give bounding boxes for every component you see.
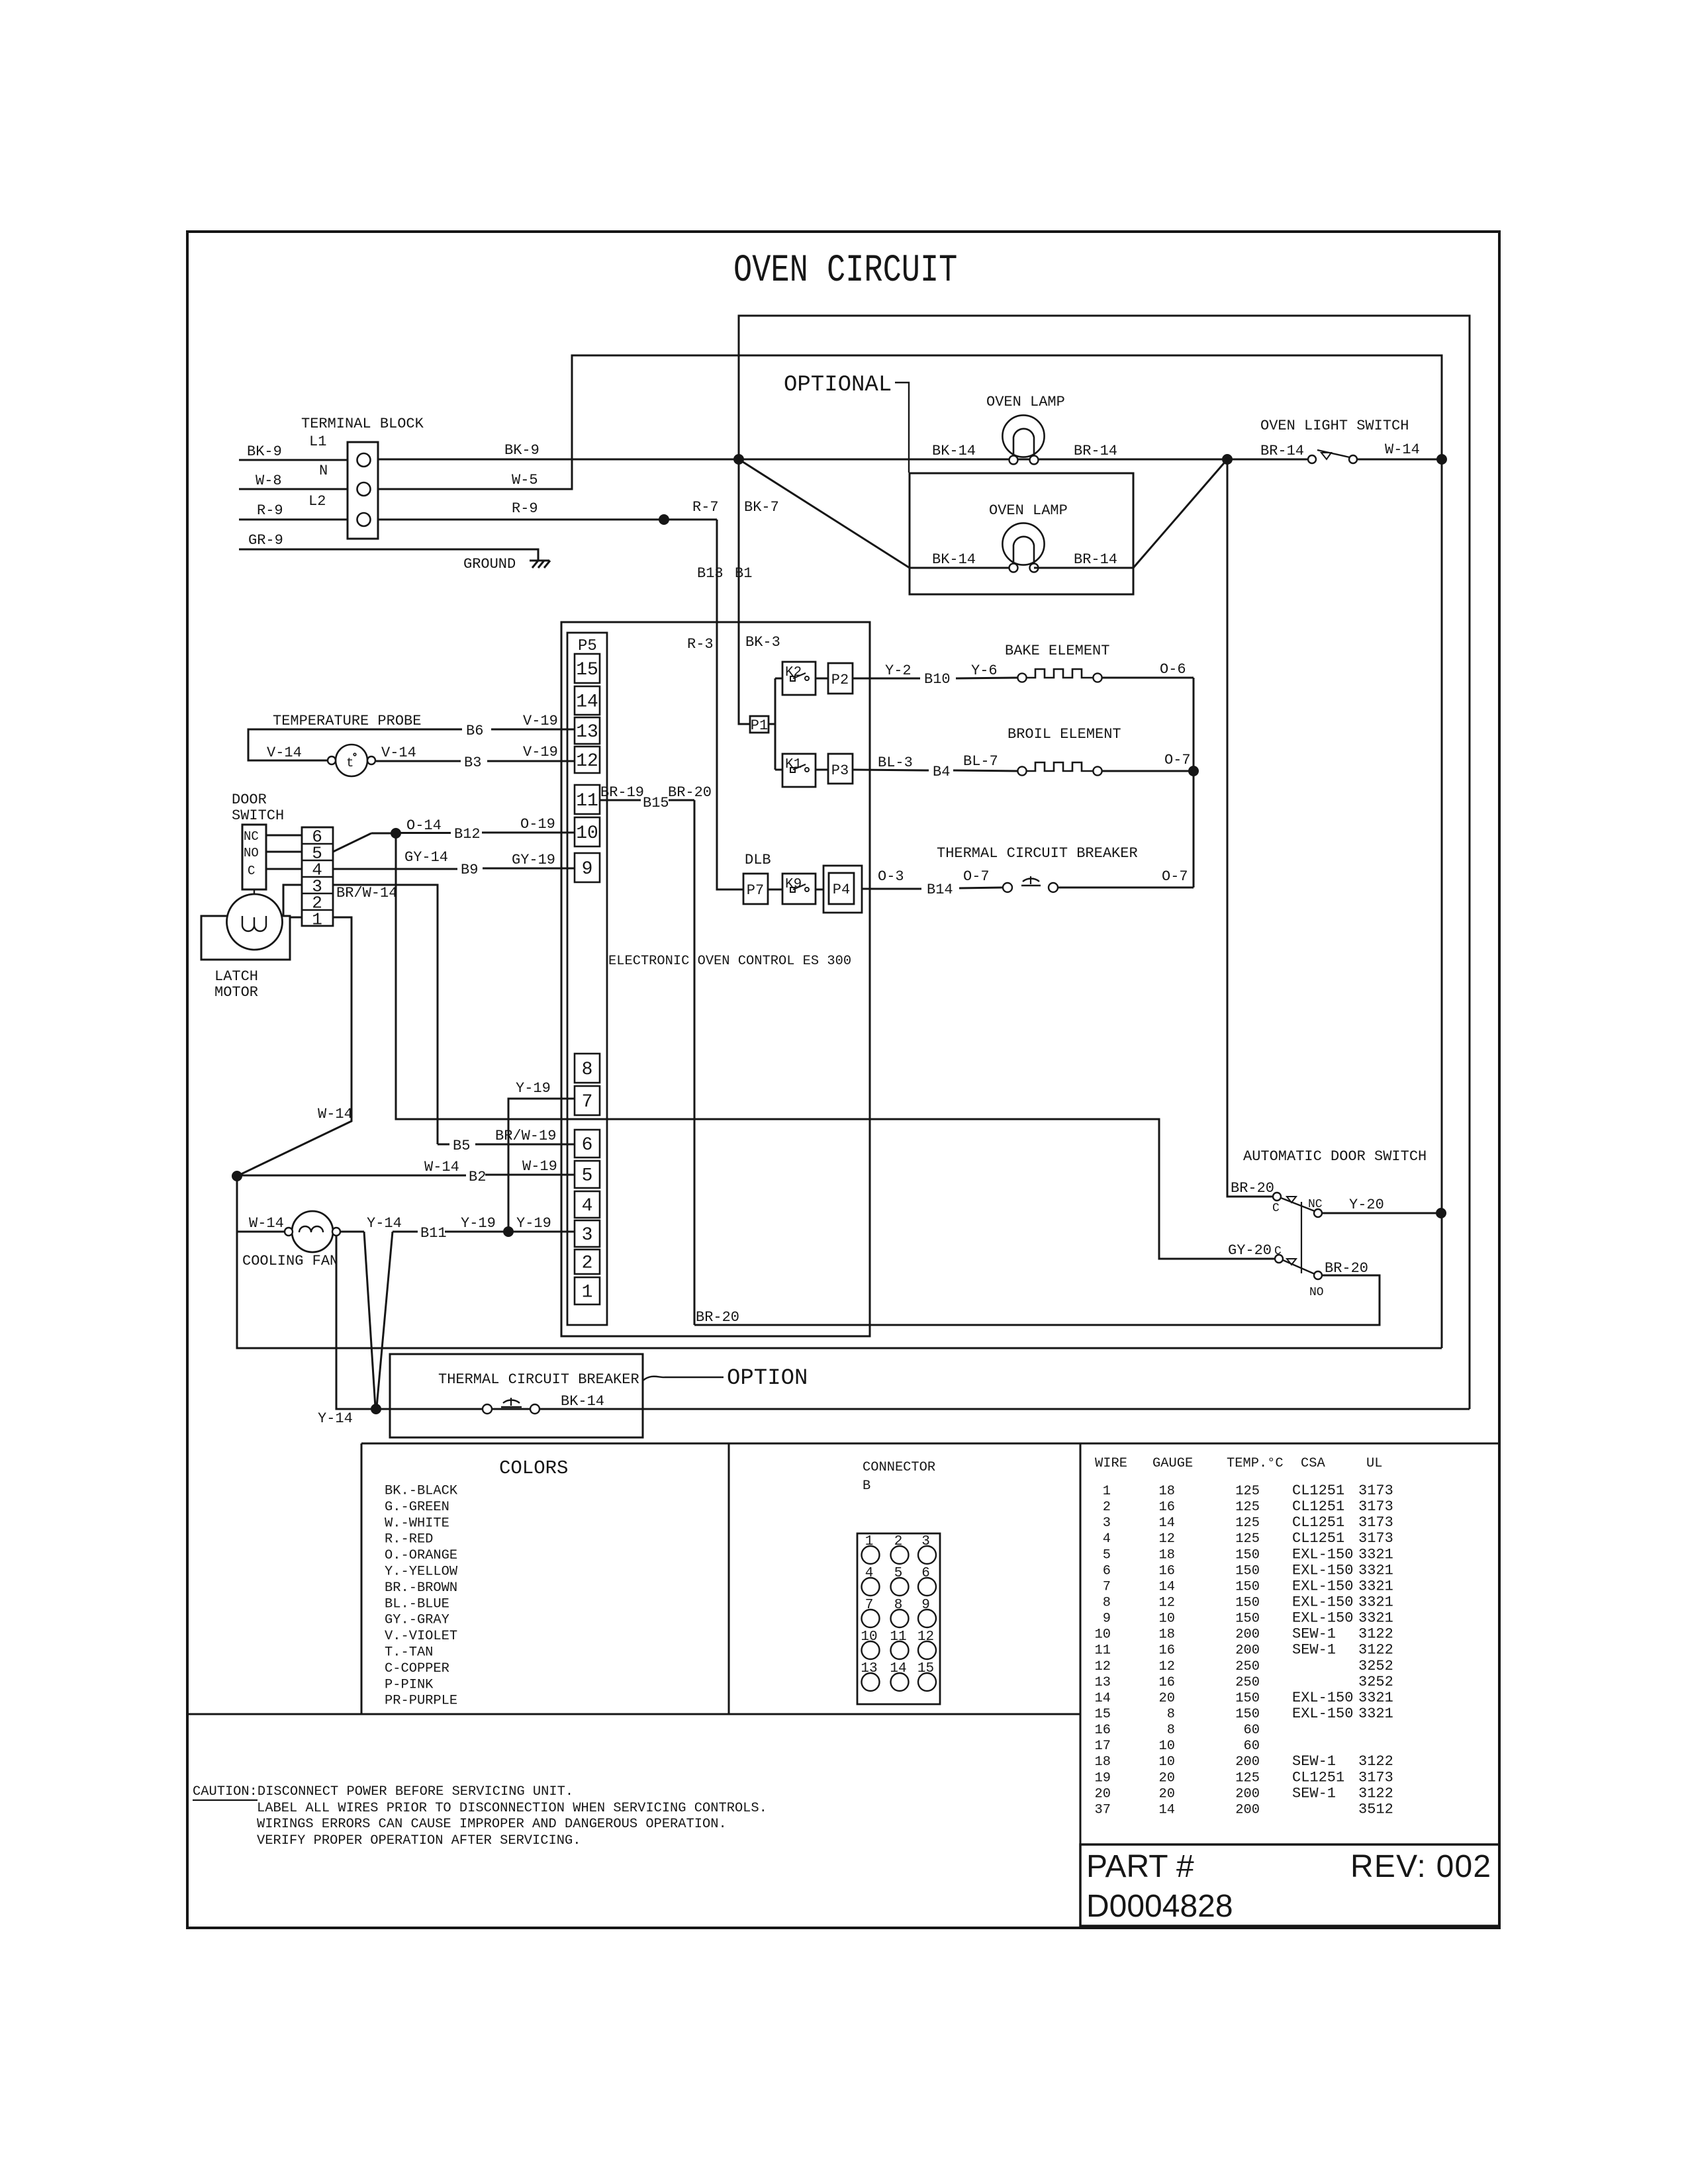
wire pin1 to W-14 node [237,917,353,1176]
wire W-8 N feed [239,473,348,489]
svg-text:1: 1 [865,1534,874,1549]
svg-text:W-14: W-14 [424,1159,459,1175]
wire table header [1095,1456,1382,1471]
svg-text:NO: NO [244,846,259,860]
svg-text:Y-19: Y-19 [461,1215,496,1232]
wire Y-19 pin7 [508,1080,575,1232]
wire K9-P4 [816,889,823,891]
wire W-14 B2 W-19 pin5 [237,1158,575,1185]
svg-text:4: 4 [1103,1531,1111,1547]
border frame [187,232,1499,1928]
svg-text:16: 16 [1159,1500,1175,1515]
svg-text:125: 125 [1235,1770,1260,1786]
pin P5-15 [575,654,600,683]
svg-text:2: 2 [894,1534,903,1549]
svg-text:BL.-BLUE: BL.-BLUE [385,1596,449,1612]
svg-text:BR-14: BR-14 [1074,443,1117,459]
oven light switch S1 [1260,418,1409,463]
svg-text:SEW-1: SEW-1 [1292,1753,1336,1770]
svg-text:THERMAL CIRCUIT BREAKER: THERMAL CIRCUIT BREAKER [937,845,1138,862]
pin P5-11 [575,785,600,814]
svg-text:OVEN CIRCUIT: OVEN CIRCUIT [733,248,957,292]
svg-text:10: 10 [1095,1627,1111,1643]
svg-text:DOOR: DOOR [232,792,267,808]
svg-text:7: 7 [1103,1579,1111,1594]
svg-text:150: 150 [1235,1612,1260,1627]
wire B1 BK-7 drop [735,459,780,724]
svg-text:150: 150 [1235,1707,1260,1722]
wire GY-20 feed run [396,833,1275,1259]
svg-text:O-14: O-14 [406,817,442,834]
svg-text:MOTOR: MOTOR [214,984,258,1001]
label bake element [1005,643,1109,659]
svg-text:125: 125 [1235,1516,1260,1531]
svg-text:R.-RED: R.-RED [385,1532,433,1547]
svg-text:O.-ORANGE: O.-ORANGE [385,1548,457,1563]
svg-text:BL-7: BL-7 [963,753,998,770]
wire BR-14 to switch [1227,443,1308,459]
svg-text:COOLING FAN: COOLING FAN [242,1253,338,1269]
svg-text:AUTOMATIC DOOR SWITCH: AUTOMATIC DOOR SWITCH [1243,1148,1427,1165]
driver P3 [828,754,853,784]
pin P5-7 [575,1086,600,1115]
wire B5 BR/W-19 pin6 [438,1128,575,1154]
pin P5-12 [575,747,600,773]
svg-text:9: 9 [1103,1612,1111,1627]
svg-text:TERMINAL BLOCK: TERMINAL BLOCK [301,416,424,432]
svg-text:2: 2 [582,1253,593,1274]
wire Y-20 [1322,1197,1441,1213]
wire BR-14 drop [1227,459,1274,1197]
door switch [232,792,284,889]
node H junction O-7 [1189,766,1199,776]
svg-text:10: 10 [861,1629,877,1645]
wire NC [266,835,302,837]
svg-text:SEW-1: SEW-1 [1292,1785,1336,1801]
svg-text:BR/W-19: BR/W-19 [495,1128,556,1144]
svg-text:BK-14: BK-14 [932,551,976,568]
svg-text:B14: B14 [927,882,953,898]
node F junction W-14 [232,1171,242,1181]
svg-text:BR-20: BR-20 [668,784,712,801]
wire BL-3 B4 BL-7 [853,753,1017,780]
svg-text:14: 14 [1159,1802,1175,1817]
svg-text:OVEN LAMP: OVEN LAMP [989,502,1068,519]
svg-text:CL1251: CL1251 [1292,1530,1344,1547]
svg-text:W.-WHITE: W.-WHITE [385,1516,449,1531]
svg-text:3512: 3512 [1358,1801,1393,1817]
tables top rule [361,1443,1499,1714]
svg-text:CAUTION:DISCONNECT POWER BEFOR: CAUTION:DISCONNECT POWER BEFORE SERVICIN… [193,1784,573,1799]
svg-text:NC: NC [244,829,259,844]
label thermal circuit breaker [937,845,1138,862]
svg-text:P2: P2 [831,672,849,688]
oven lamp 1 [986,394,1065,465]
svg-text:UL: UL [1366,1456,1382,1471]
svg-text:D0004828: D0004828 [1086,1889,1233,1924]
svg-text:13: 13 [861,1661,877,1676]
wire O-3 B14 O-7 [862,868,1003,898]
wire Y-2 B10 Y-6 [853,662,1017,688]
terminal L2 [357,513,371,526]
svg-text:3252: 3252 [1358,1658,1393,1674]
label COLORS [499,1457,568,1479]
svg-text:B4: B4 [933,764,950,780]
svg-text:GAUGE: GAUGE [1152,1456,1193,1471]
svg-text:EXL-150: EXL-150 [1292,1706,1353,1722]
wire table rules [1080,1443,1082,1844]
svg-text:3122: 3122 [1358,1642,1393,1659]
title OVEN CIRCUIT [733,248,957,292]
svg-text:B10: B10 [924,671,951,688]
wire P7-K9 [768,889,782,891]
label OPTIONAL [784,373,909,473]
auto door switch upper pole [1272,1193,1323,1273]
svg-text:Y-14: Y-14 [367,1215,402,1232]
svg-text:W-19: W-19 [522,1158,557,1175]
svg-text:O-6: O-6 [1160,661,1186,678]
svg-text:8: 8 [582,1060,593,1080]
svg-text:V.-VIOLET: V.-VIOLET [385,1629,457,1644]
svg-text:V-19: V-19 [523,744,558,760]
svg-text:BK-14: BK-14 [561,1393,604,1410]
svg-text:16: 16 [1095,1723,1111,1738]
wire R-9 to B13 [378,500,717,520]
wire optional lamp return [1133,459,1227,568]
svg-text:6: 6 [921,1566,930,1581]
svg-text:Y-2: Y-2 [885,662,912,679]
label PART # [1086,1849,1194,1884]
svg-text:3122: 3122 [1358,1785,1393,1801]
svg-text:EXL-150: EXL-150 [1292,1610,1353,1627]
svg-text:B12: B12 [454,826,481,842]
wire O-7 breaker out [1058,868,1194,887]
svg-text:O-7: O-7 [1164,752,1191,768]
svg-text:TEMP.°C: TEMP.°C [1227,1456,1284,1471]
wire latch to pin1 [290,917,302,919]
wire pin3 to latch [283,885,302,916]
wire BR/W-14 pin3 drop [333,885,438,1144]
svg-text:3321: 3321 [1358,1578,1393,1594]
part number box [1080,1844,1499,1926]
svg-text:Y-19: Y-19 [516,1215,551,1232]
svg-text:C: C [1272,1202,1280,1215]
svg-text:P7: P7 [747,882,764,899]
wire pin5 to O-14 node [333,833,396,852]
wire W-14 fan feed [237,1215,285,1232]
svg-text:14: 14 [1159,1516,1175,1531]
label REV: 002 [1350,1849,1491,1884]
svg-text:Y-19: Y-19 [516,1080,551,1097]
svg-text:13: 13 [576,722,598,743]
svg-text:BAKE ELEMENT: BAKE ELEMENT [1005,643,1109,659]
svg-text:O-3: O-3 [878,868,904,885]
svg-text:Y-6: Y-6 [971,662,998,679]
svg-text:12: 12 [1159,1595,1175,1610]
svg-text:P4: P4 [833,882,850,898]
svg-text:P1: P1 [751,717,768,734]
svg-text:NO: NO [1309,1286,1324,1299]
svg-text:125: 125 [1235,1500,1260,1515]
wire W-14 switch out [1357,441,1442,459]
svg-text:20: 20 [1159,1691,1175,1706]
electronic oven control ES 300 [561,622,870,1336]
cooling fan M2 [242,1211,340,1269]
svg-text:4: 4 [582,1196,593,1216]
wire P1 out [769,678,782,770]
svg-text:16: 16 [1159,1563,1175,1578]
svg-text:8: 8 [1167,1707,1175,1722]
node D junction Y-20/W-14 [1436,1208,1446,1218]
wire breaker to node H [1193,771,1195,887]
label OPTION [643,1366,808,1391]
svg-text:CSA: CSA [1301,1456,1325,1471]
svg-text:200: 200 [1235,1802,1260,1817]
node E junction O-14 [391,817,442,839]
svg-text:BR-20: BR-20 [1231,1180,1274,1197]
wire W-14 right drop [1441,459,1443,1348]
wire V-14 B3 V-19 pin12 [376,744,575,771]
svg-text:Y-14: Y-14 [318,1410,353,1427]
caution note [193,1784,767,1848]
svg-text:V-14: V-14 [381,745,416,761]
svg-text:150: 150 [1235,1563,1260,1578]
svg-text:O-7: O-7 [1162,868,1188,885]
wire BK-9 to node A [378,442,739,459]
svg-text:CL1251: CL1251 [1292,1498,1344,1515]
svg-text:10: 10 [1159,1754,1175,1770]
svg-text:10: 10 [1159,1612,1175,1627]
svg-text:DLB: DLB [745,852,771,868]
pin P5-2 [575,1250,600,1274]
svg-text:P-PINK: P-PINK [385,1677,434,1692]
svg-text:BR.-BROWN: BR.-BROWN [385,1580,457,1596]
svg-text:12: 12 [1095,1659,1111,1674]
wire O-6 [1102,661,1194,678]
svg-text:3173: 3173 [1358,1514,1393,1531]
svg-text:12: 12 [1159,1531,1175,1547]
svg-text:3: 3 [582,1225,593,1246]
wire BK-14/BR-14 lamp run [739,443,1227,459]
svg-text:B9: B9 [461,862,478,878]
svg-text:V-19: V-19 [523,713,558,729]
svg-text:B5: B5 [453,1138,470,1154]
auto door switch lower pole [1274,1245,1368,1299]
svg-text:3122: 3122 [1358,1626,1393,1643]
svg-text:150: 150 [1235,1579,1260,1594]
svg-text:WIRE: WIRE [1095,1456,1127,1471]
svg-text:SEW-1: SEW-1 [1292,1626,1336,1643]
svg-text:EXL-150: EXL-150 [1292,1690,1353,1706]
wire B13 R-3 drop [687,520,743,889]
svg-text:C-COPPER: C-COPPER [385,1661,449,1676]
svg-text:VERIFY PROPER OPERATION AFTER: VERIFY PROPER OPERATION AFTER SERVICING. [257,1833,581,1848]
svg-text:8: 8 [1167,1723,1175,1738]
wire K1-P3 [816,769,828,771]
automatic door switch [1243,1148,1427,1165]
color legend list [385,1484,458,1709]
svg-text:OPTION: OPTION [727,1366,808,1391]
relay K9 [782,874,816,904]
svg-text:10: 10 [1159,1739,1175,1754]
svg-text:11: 11 [890,1629,906,1645]
svg-text:3173: 3173 [1358,1530,1393,1547]
svg-text:B13: B13 [697,565,724,582]
svg-text:12: 12 [917,1629,934,1645]
wire BR-20 drop [694,800,696,1325]
svg-text:37: 37 [1095,1802,1111,1817]
svg-text:15: 15 [1095,1707,1111,1722]
svg-text:BK.-BLACK: BK.-BLACK [385,1484,458,1499]
svg-text:B1: B1 [735,565,752,582]
latch motor M1 [201,889,290,1001]
label DLB [745,852,771,868]
svg-text:1: 1 [1103,1484,1111,1499]
svg-text:19: 19 [1095,1770,1111,1786]
svg-text:BR-19: BR-19 [600,784,644,801]
wire bake to broil node [1193,678,1195,771]
svg-text:20: 20 [1095,1786,1111,1801]
svg-text:CONNECTOR: CONNECTOR [863,1460,935,1475]
svg-text:EXL-150: EXL-150 [1292,1562,1353,1578]
wire BK-14 option run [336,1393,1470,1410]
svg-text:B6: B6 [466,723,483,739]
svg-text:WIRINGS ERRORS CAN CAUSE IMPRO: WIRINGS ERRORS CAN CAUSE IMPROPER AND DA… [257,1817,727,1832]
svg-text:18: 18 [1159,1627,1175,1643]
wire NO return BR-20 [694,1275,1380,1326]
node G junction Y-19 [504,1227,514,1237]
svg-text:14: 14 [1095,1691,1111,1706]
wire GR-9 ground feed [239,532,538,561]
colors box [187,1443,1080,1714]
svg-text:150: 150 [1235,1547,1260,1563]
svg-text:6: 6 [1103,1563,1111,1578]
svg-text:12: 12 [1159,1659,1175,1674]
terminal N [357,482,371,496]
svg-text:3252: 3252 [1358,1674,1393,1690]
svg-text:5: 5 [894,1566,903,1581]
svg-text:NC: NC [1308,1198,1323,1211]
connector P5 strip [567,633,607,1325]
svg-text:C: C [248,864,255,878]
wire K2-P2 [816,678,828,680]
bake element HE1 [1017,669,1102,682]
driver P2 [828,663,853,694]
svg-text:1: 1 [582,1283,593,1303]
svg-text:13: 13 [1095,1675,1111,1690]
wire BK-14 optional lamp [910,551,1011,568]
svg-text:GROUND: GROUND [463,556,516,572]
svg-text:6: 6 [582,1135,593,1156]
svg-text:P5: P5 [578,637,597,655]
svg-text:Y.-YELLOW: Y.-YELLOW [385,1565,458,1580]
svg-text:BR/W-14: BR/W-14 [336,885,397,901]
wire W-14 long run [237,1176,1442,1348]
svg-text:15: 15 [917,1661,934,1676]
wire GY-14 B9 GY-19 pin9 [333,849,575,878]
svg-text:OPTIONAL: OPTIONAL [784,373,892,398]
thermal circuit breaker CB1 [1003,876,1058,892]
svg-text:150: 150 [1235,1595,1260,1610]
svg-text:5: 5 [582,1166,593,1187]
svg-text:BROIL ELEMENT: BROIL ELEMENT [1008,726,1121,743]
svg-text:R-9: R-9 [257,502,283,519]
svg-text:P3: P3 [831,762,849,779]
svg-text:2: 2 [1103,1500,1111,1515]
svg-text:17: 17 [1095,1739,1111,1754]
door connector pins 6-1 [302,827,333,930]
svg-text:18: 18 [1159,1547,1175,1563]
ground [463,556,550,572]
svg-text:BK-3: BK-3 [745,634,780,651]
svg-text:V-14: V-14 [267,745,302,761]
svg-text:8: 8 [1103,1595,1111,1610]
svg-text:9: 9 [921,1598,930,1613]
wire BK-9 L1 feed [239,443,348,460]
svg-text:COLORS: COLORS [499,1457,568,1479]
svg-text:Y-20: Y-20 [1349,1197,1384,1213]
svg-text:BR-20: BR-20 [1325,1260,1368,1277]
svg-text:B: B [863,1479,870,1494]
svg-text:5: 5 [1103,1547,1111,1563]
svg-text:200: 200 [1235,1754,1260,1770]
svg-text:R-9: R-9 [512,500,538,517]
connector B grid [857,1533,940,1704]
svg-text:L2: L2 [308,493,326,510]
temperature probe label [273,713,421,729]
pin P5-10 [575,817,600,846]
svg-text:4: 4 [865,1566,874,1581]
svg-text:12: 12 [576,751,598,772]
svg-text:W-14: W-14 [1385,441,1420,458]
svg-text:10: 10 [576,823,598,844]
svg-text:200: 200 [1235,1786,1260,1801]
svg-text:3173: 3173 [1358,1769,1393,1786]
wire Y-14 node to B11 [377,1232,393,1407]
pin P5-4 [575,1191,600,1218]
svg-text:14: 14 [576,692,598,713]
svg-text:GY-19: GY-19 [512,852,555,868]
svg-text:150: 150 [1235,1691,1260,1706]
svg-text:PART #: PART # [1086,1849,1194,1884]
svg-text:REV: 002: REV: 002 [1350,1849,1491,1884]
wire R-9 L2 feed [239,502,348,520]
pin P5-8 [575,1054,600,1083]
broil element HE2 [1017,762,1102,776]
svg-text:200: 200 [1235,1643,1260,1659]
wire gauge table [1095,1482,1393,1817]
wire fan to Y-14 node [364,1232,375,1407]
svg-text:BK-9: BK-9 [504,442,539,459]
svg-text:W-14: W-14 [249,1215,284,1232]
svg-text:THERMAL CIRCUIT BREAKER: THERMAL CIRCUIT BREAKER [438,1371,639,1388]
svg-text:C: C [1274,1245,1282,1258]
svg-text:16: 16 [1159,1643,1175,1659]
pin P5-3 [575,1220,600,1247]
svg-text:GY-14: GY-14 [404,849,448,866]
node C junction W-14 [1437,455,1447,465]
svg-text:LATCH: LATCH [214,968,258,985]
svg-text:3321: 3321 [1358,1706,1393,1722]
svg-text:18: 18 [1095,1754,1111,1770]
svg-text:CL1251: CL1251 [1292,1514,1344,1531]
relay K1 [782,754,816,787]
svg-text:W-8: W-8 [256,473,282,489]
wire BR-14 optional lamp [1034,551,1133,568]
svg-text:20: 20 [1159,1770,1175,1786]
svg-text:14: 14 [1159,1579,1175,1594]
splice R-9/R-7 [659,499,719,525]
